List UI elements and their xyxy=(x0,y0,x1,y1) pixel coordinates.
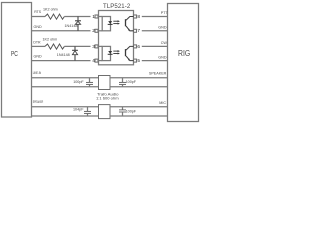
pin 5 square xyxy=(134,59,137,62)
svg-text:LINE-IN: LINE-IN xyxy=(33,71,42,75)
svg-text:1:1 600 ohm: 1:1 600 ohm xyxy=(96,96,119,101)
capacitor C2 xyxy=(122,78,124,82)
pin 6 square xyxy=(134,45,137,48)
wire T1 to RIG bottom xyxy=(110,86,168,88)
wire SPEAKER bottom xyxy=(32,115,99,117)
wire T2 to RIG top xyxy=(110,106,168,108)
svg-text:RTS: RTS xyxy=(34,10,42,14)
svg-text:GND: GND xyxy=(158,55,167,59)
phototransistor Q2 base xyxy=(125,49,127,56)
wire LINE-IN bottom xyxy=(32,86,99,88)
svg-text:PTT: PTT xyxy=(161,11,169,15)
wire SPEAKER top xyxy=(32,106,99,108)
LED1 symbol xyxy=(108,21,112,24)
svg-text:PC: PC xyxy=(11,49,18,58)
svg-text:1K2 ohm: 1K2 ohm xyxy=(43,38,58,42)
transformer T2 box xyxy=(99,105,111,119)
wire LINE-IN top xyxy=(32,77,99,79)
wire R1 to pin1 xyxy=(64,16,90,18)
Q2 emitter arrow xyxy=(128,58,130,60)
pin 2 square xyxy=(95,29,98,32)
svg-text:104pF: 104pF xyxy=(73,108,84,112)
pin 1 square xyxy=(95,15,98,18)
svg-text:GND: GND xyxy=(158,26,167,30)
pin 7 square xyxy=(134,29,137,32)
svg-text:8: 8 xyxy=(137,14,140,19)
light arrow 2b xyxy=(113,53,118,55)
resistor R1 xyxy=(45,14,64,19)
capacitor C4 xyxy=(122,107,124,110)
capacitor C1 xyxy=(89,78,91,82)
diode D1 1N4148 xyxy=(77,17,79,21)
svg-text:GND: GND xyxy=(34,25,43,29)
Q2 emitter xyxy=(126,56,134,61)
svg-text:CW: CW xyxy=(161,41,168,45)
opto-coupler U1 box xyxy=(99,11,134,65)
diode D2 1N4148 xyxy=(74,46,76,50)
LED2 loop wire xyxy=(102,46,110,60)
transformer T1 box xyxy=(99,76,111,90)
svg-text:1K2 ohm: 1K2 ohm xyxy=(43,7,58,11)
wire pin3 stub xyxy=(99,45,103,47)
svg-text:3: 3 xyxy=(92,44,95,49)
wire pin5 to RIG xyxy=(142,60,168,62)
wire pin2 stub xyxy=(99,30,103,32)
wire pin7 to RIG xyxy=(142,30,168,32)
pin 4 square xyxy=(95,59,98,62)
wire pin6 to RIG xyxy=(142,45,168,47)
svg-text:MIC: MIC xyxy=(159,101,166,105)
svg-text:6: 6 xyxy=(137,44,140,49)
RIG box xyxy=(168,4,199,122)
svg-text:SPEAKER: SPEAKER xyxy=(33,100,44,104)
wire T2 to RIG bottom xyxy=(110,115,168,117)
wire pin8 to RIG xyxy=(142,16,168,18)
svg-text:7: 7 xyxy=(137,28,140,33)
Q1 emitter arrow xyxy=(128,29,130,31)
PC box xyxy=(2,3,32,118)
LED2 symbol xyxy=(108,51,112,54)
svg-text:GND: GND xyxy=(34,54,43,58)
resistor R2 xyxy=(45,44,64,49)
wire RTS xyxy=(32,16,46,18)
LED1 loop wire xyxy=(102,17,110,31)
svg-text:SPEAKER: SPEAKER xyxy=(149,72,167,76)
wire GND2 xyxy=(32,60,91,62)
wire DTR xyxy=(32,45,46,47)
capacitor C3 xyxy=(87,107,89,111)
pin 3 square xyxy=(95,45,98,48)
Q2 collector xyxy=(126,46,134,50)
svg-text:100pF: 100pF xyxy=(126,110,137,114)
wire pin4 stub xyxy=(99,60,103,62)
svg-text:2: 2 xyxy=(92,28,95,33)
pin 8 square xyxy=(134,15,137,18)
light arrow 2a xyxy=(113,50,118,52)
svg-text:RIG: RIG xyxy=(178,49,190,58)
light arrow 1b xyxy=(113,23,118,25)
Q1 emitter xyxy=(126,26,134,31)
svg-text:100pF: 100pF xyxy=(73,80,84,84)
svg-text:TLP521-2: TLP521-2 xyxy=(103,4,131,10)
wire GND1 xyxy=(32,30,91,32)
wire pin1 stub xyxy=(99,16,103,18)
svg-text:1N4148: 1N4148 xyxy=(65,24,78,28)
svg-text:DTR: DTR xyxy=(33,41,41,45)
svg-text:5: 5 xyxy=(137,58,140,63)
svg-text:4: 4 xyxy=(92,58,95,63)
light arrow 1a xyxy=(113,20,118,22)
svg-text:1: 1 xyxy=(92,14,95,19)
phototransistor Q1 base xyxy=(125,19,127,26)
svg-text:100pF: 100pF xyxy=(126,80,137,84)
wire R2 to pin3 xyxy=(64,45,90,47)
Q1 collector xyxy=(126,17,134,21)
wire T1 to RIG top xyxy=(110,77,168,79)
svg-text:1N4148: 1N4148 xyxy=(57,53,70,57)
